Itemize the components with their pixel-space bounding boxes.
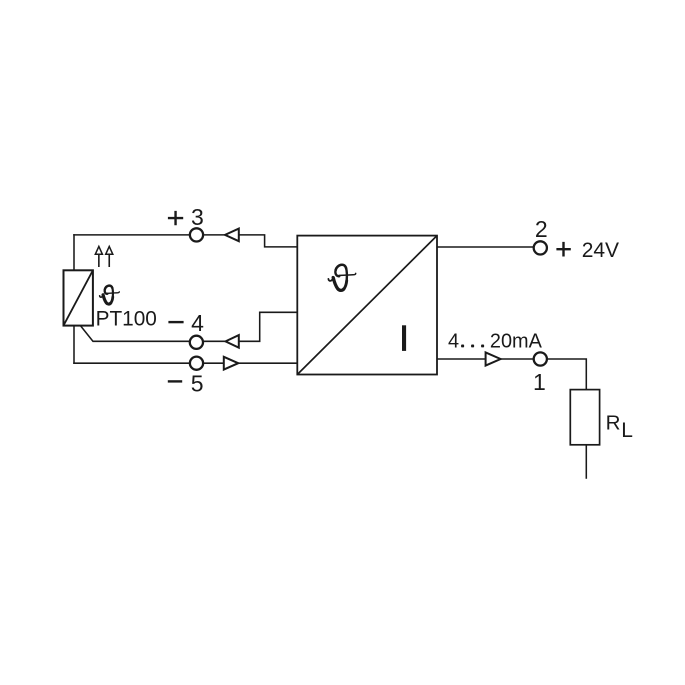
svg-text:4: 4 (448, 330, 459, 352)
svg-text:24V: 24V (582, 239, 619, 262)
svg-text:4: 4 (191, 310, 204, 336)
svg-text:R: R (606, 411, 621, 434)
svg-text:20mA: 20mA (490, 330, 543, 352)
svg-text:1: 1 (533, 369, 546, 395)
svg-text:2: 2 (535, 216, 548, 242)
svg-text:L: L (621, 419, 633, 442)
svg-text:3: 3 (191, 204, 204, 230)
svg-text:5: 5 (191, 370, 204, 396)
svg-text:PT100: PT100 (96, 307, 157, 330)
